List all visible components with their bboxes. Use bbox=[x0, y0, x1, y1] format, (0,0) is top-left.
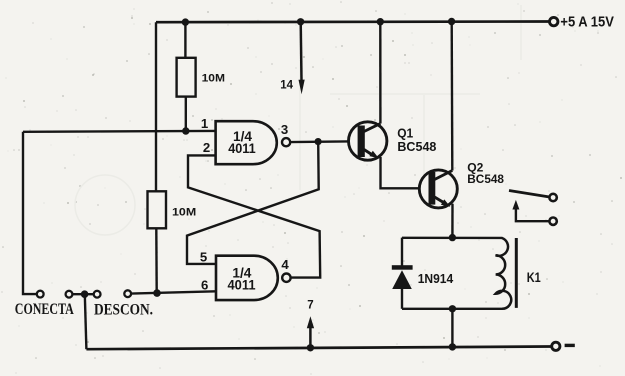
op-amp U1b NAND gate 1/4 4011 body bbox=[216, 256, 278, 300]
wire Q2 collector to rail bbox=[451, 22, 454, 171]
wire Q1 emitter to Q2 base bbox=[381, 157, 429, 188]
resistor R2 10M body bbox=[148, 191, 167, 228]
wire Q2 emitter to relay bbox=[451, 204, 454, 238]
svg-text:10M: 10M bbox=[172, 206, 196, 218]
label minus dash bbox=[565, 344, 575, 347]
svg-text:5: 5 bbox=[200, 250, 207, 265]
svg-text:4011: 4011 bbox=[228, 277, 257, 292]
svg-text:BC548: BC548 bbox=[397, 139, 436, 154]
svg-text:3: 3 bbox=[281, 122, 288, 137]
junction dot rail-R1 bbox=[182, 18, 189, 25]
junction dot R2-pin6 bbox=[153, 289, 161, 297]
svg-text:6: 6 bbox=[201, 277, 208, 292]
gate2 output bubble bbox=[282, 274, 290, 282]
svg-text:CONECTA: CONECTA bbox=[15, 301, 74, 318]
wire DESCON to pin6 bbox=[131, 291, 216, 293]
ghost bleed-through lines bbox=[75, 5, 521, 235]
junction dot relay bottom bbox=[449, 305, 456, 312]
junction dot rail-Q2 collector bbox=[448, 18, 455, 25]
switch DESCON right contact bbox=[124, 290, 131, 297]
wire between switches bbox=[72, 293, 93, 295]
junction dot rail-pin14 bbox=[297, 18, 304, 25]
transistor Q1 bbox=[349, 122, 387, 160]
wire pin3 feedback to pin5 (cross coupling) bbox=[187, 142, 319, 264]
wire left drop from rail to R2 bbox=[155, 22, 157, 191]
svg-text:4011: 4011 bbox=[228, 141, 256, 156]
switch DESCON left contact bbox=[94, 291, 101, 298]
wire relay bottom bbox=[402, 308, 503, 310]
resistor R1 10M body bbox=[177, 58, 196, 97]
svg-text:K1: K1 bbox=[527, 270, 541, 285]
wire bottom ground rail bbox=[86, 347, 550, 350]
svg-text:BC548: BC548 bbox=[467, 173, 504, 186]
junction dot common ground of switches bbox=[81, 290, 89, 298]
switch CONECTA left contact bbox=[37, 291, 44, 298]
wire left down to CONECTA bbox=[23, 132, 37, 294]
wire top supply rail bbox=[156, 20, 549, 23]
junction dot rail-relay bbox=[449, 343, 456, 350]
svg-text:1: 1 bbox=[201, 116, 208, 131]
relay K1 armature bar bbox=[515, 238, 518, 308]
switch CONECTA right contact bbox=[66, 291, 73, 298]
wire relay bottom to ground rail bbox=[451, 309, 453, 347]
svg-text:4: 4 bbox=[281, 257, 289, 272]
junction dot Q2 emitter relay top bbox=[449, 234, 456, 241]
wire R1 top lead bbox=[184, 22, 186, 58]
transistor Q2 bbox=[419, 170, 457, 208]
junction dot gate1 output feedback bbox=[315, 138, 322, 145]
svg-text:DESCON.: DESCON. bbox=[94, 302, 153, 319]
wire gate1 output to Q1 base bbox=[290, 140, 358, 143]
wire switch node down to ground rail bbox=[85, 294, 87, 349]
diode D1 1N914 bbox=[392, 238, 413, 309]
op-amp U1a NAND gate 1/4 4011 body bbox=[216, 121, 277, 164]
relay switch upper contact bbox=[549, 194, 556, 201]
svg-text:10M: 10M bbox=[202, 72, 225, 84]
svg-text:2: 2 bbox=[203, 140, 210, 155]
junction dot pin1-R1 bbox=[182, 127, 189, 134]
svg-text:7: 7 bbox=[307, 300, 313, 312]
svg-text:14: 14 bbox=[280, 79, 293, 91]
pin 7 ground arrow bbox=[307, 316, 314, 348]
terminal negative bbox=[552, 342, 560, 350]
gate1 output bubble bbox=[282, 138, 290, 146]
relay K1 coil bbox=[496, 238, 512, 309]
wire relay top bbox=[402, 237, 503, 239]
relay switch lower contact bbox=[549, 218, 556, 225]
svg-text:1N914: 1N914 bbox=[418, 271, 454, 286]
wire Q1 collector to rail bbox=[379, 22, 382, 124]
wire pin1 node horizontal bbox=[23, 130, 216, 133]
junction dot rail-Q1 collector bbox=[377, 18, 384, 25]
pin 14 power arrow bbox=[299, 22, 305, 94]
wire pin2 feedback to pin4 (cross coupling) bbox=[188, 155, 320, 277]
relay switch contact lever bbox=[509, 191, 549, 197]
junction dot rail-pin7 bbox=[307, 344, 314, 351]
terminal +5 A 15V bbox=[550, 17, 558, 25]
wire R2 bottom to switch node bbox=[155, 228, 158, 293]
svg-text:+5 A 15V: +5 A 15V bbox=[560, 15, 614, 31]
wire R1 bottom lead bbox=[185, 97, 187, 131]
relay actuation arrow bbox=[512, 200, 549, 221]
